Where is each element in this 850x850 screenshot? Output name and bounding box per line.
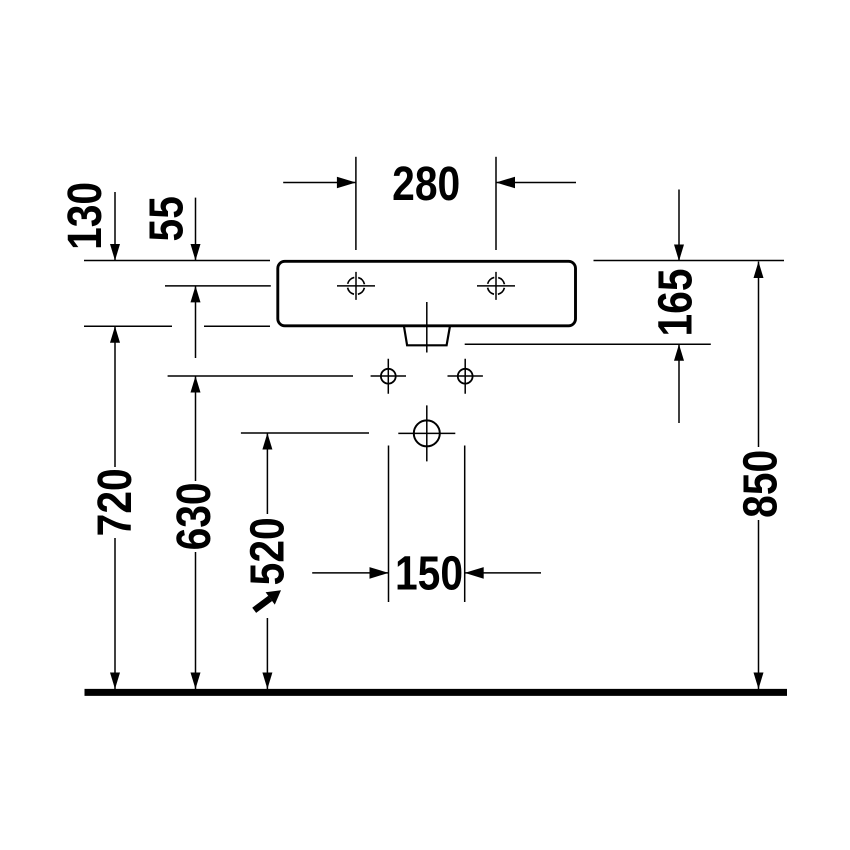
svg-text:520: 520	[241, 517, 294, 585]
svg-text:720: 720	[89, 468, 142, 536]
svg-text:630: 630	[168, 482, 221, 550]
svg-text:130: 130	[59, 182, 112, 250]
svg-text:850: 850	[734, 450, 787, 518]
svg-text:165: 165	[649, 268, 702, 336]
svg-text:280: 280	[392, 158, 460, 211]
svg-text:55: 55	[140, 196, 193, 241]
svg-text:150: 150	[395, 547, 463, 600]
